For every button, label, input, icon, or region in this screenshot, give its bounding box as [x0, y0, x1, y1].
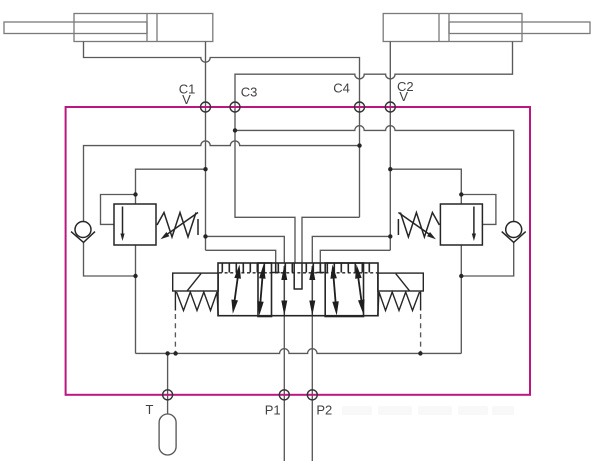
wire cylinder2 cap-end to C3 with hops	[235, 42, 513, 108]
wire P1 valve to bottom	[283, 316, 285, 461]
directional valve envelope	[218, 263, 378, 316]
valve narrow box left	[258, 263, 272, 317]
valve top ticks	[222, 263, 369, 273]
check valve right	[506, 222, 522, 238]
svg-text:P2: P2	[316, 403, 332, 418]
wire C2 down	[389, 107, 391, 250]
valve arrow V1	[283, 266, 285, 315]
valve dashed positions line	[219, 272, 377, 274]
wire C3 down to funnel	[235, 107, 295, 263]
cylinder 1 rod	[4, 22, 147, 34]
port C1	[201, 102, 211, 112]
valve arrow V2	[311, 266, 313, 315]
wire cylinder1 cap-end to C4 with hop	[84, 42, 360, 108]
wire relief right drain down	[460, 245, 462, 353]
wire cylinder2 rod-end to C2	[389, 42, 391, 108]
pilot spring right	[378, 291, 421, 316]
port T	[163, 390, 173, 400]
svg-text:V: V	[399, 89, 408, 104]
pilot loop relief left	[101, 195, 136, 225]
faint watermark	[342, 406, 514, 415]
relief valve right body	[440, 204, 482, 245]
wire C1 down	[205, 107, 207, 250]
cylinder 1 piston	[147, 14, 157, 42]
valve blocked port T-bar left	[272, 263, 280, 273]
relief valve left adjust arrow	[164, 213, 198, 237]
pilot spring left	[175, 291, 218, 316]
valve arrow A1	[234, 276, 238, 302]
relief valve right internal arrow	[473, 207, 475, 236]
relief valve left body	[114, 204, 156, 245]
junction dots	[233, 128, 237, 132]
svg-text:P1: P1	[265, 403, 281, 418]
wire line1 C3 to right check valve with hops	[235, 126, 514, 222]
pilot dashed line right	[420, 314, 422, 353]
wire relief left feed	[136, 169, 206, 204]
valve blocked port T-bar right	[316, 263, 324, 273]
relief valve right spring	[398, 213, 439, 238]
wire C4 down to funnel	[302, 107, 360, 263]
svg-text:V: V	[182, 92, 191, 107]
wire relief left drain down	[135, 245, 137, 353]
port C2	[385, 102, 395, 112]
relief valve right adjust arrow	[398, 213, 432, 237]
wire bottom drain line with hops over P1 P2	[136, 349, 462, 354]
svg-text:T: T	[146, 402, 154, 417]
port C3	[230, 102, 240, 112]
wire C2 branch to valve port at 320.3	[320, 250, 390, 263]
manifold block border	[66, 107, 530, 395]
valve center pocket	[294, 263, 303, 289]
valve arrow A3	[334, 277, 336, 304]
cylinder 2 rod	[449, 22, 590, 34]
wire C1 branch to valve port at 275.7	[206, 250, 276, 263]
svg-text:C4: C4	[333, 81, 350, 96]
cylinder 2 piston	[439, 14, 449, 42]
wire cylinder1 rod-end to C1	[205, 42, 207, 108]
cylinder 2 body	[383, 14, 522, 42]
wire P2 valve to bottom	[311, 316, 313, 461]
wire C2 branch to valve port at 312	[312, 236, 390, 263]
check valve left	[75, 222, 91, 238]
wire relief right feed	[390, 169, 461, 204]
pilot loop relief right	[461, 195, 496, 225]
pilot box right	[378, 273, 424, 291]
port P1	[279, 390, 289, 400]
cylinder 1 body	[74, 14, 213, 42]
wire T port down to tank	[167, 353, 169, 414]
relief valve left internal arrow	[122, 207, 124, 236]
wire left check valve drain	[84, 242, 136, 276]
svg-text:C3: C3	[241, 85, 258, 100]
wire right check valve drain	[461, 242, 513, 276]
port P2	[307, 390, 317, 400]
valve arrow A4	[358, 276, 362, 302]
tank accumulator capsule	[159, 414, 176, 455]
wire line2 C4 to left check valve with hops	[84, 141, 360, 222]
port C4	[355, 102, 365, 112]
valve box right	[325, 263, 363, 317]
relief valve left spring	[157, 213, 198, 238]
pilot dashed line left	[174, 314, 176, 353]
valve arrow A2	[260, 277, 262, 304]
pilot box left	[173, 273, 219, 291]
wire C1 branch to valve port at 284	[206, 236, 285, 263]
